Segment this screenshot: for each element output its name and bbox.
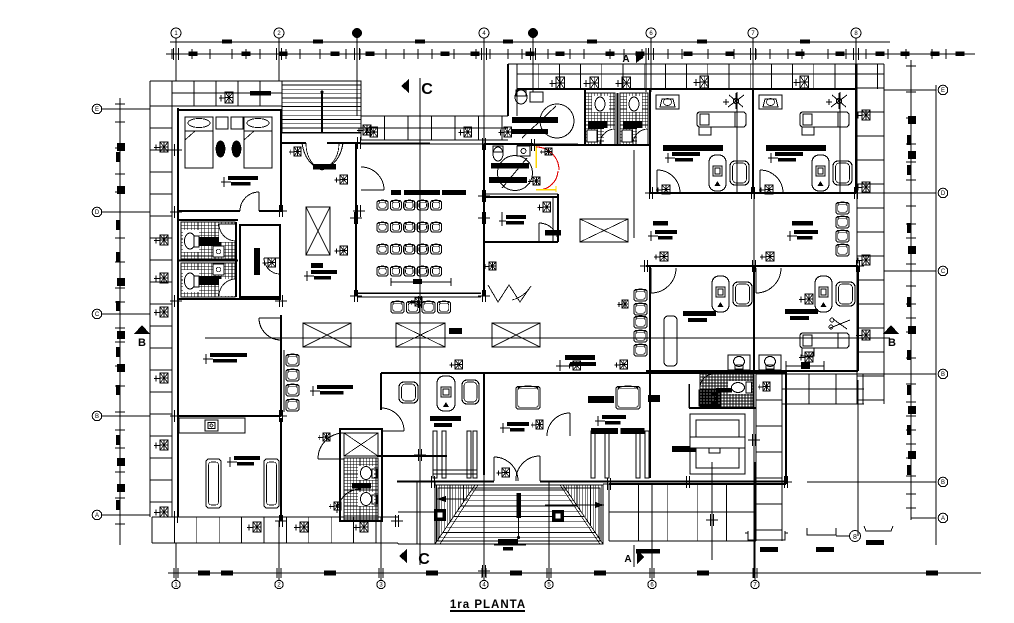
svg-text:B: B xyxy=(95,414,99,420)
svg-text:A: A xyxy=(624,554,631,565)
svg-text:B: B xyxy=(138,337,146,349)
svg-text:1ra PLANTA: 1ra PLANTA xyxy=(450,599,526,611)
svg-text:A: A xyxy=(622,54,629,65)
svg-text:C: C xyxy=(421,81,433,98)
svg-text:B: B xyxy=(941,480,945,486)
svg-text:E: E xyxy=(95,107,99,113)
svg-text:B: B xyxy=(888,337,896,349)
svg-text:D: D xyxy=(941,191,946,197)
svg-text:E: E xyxy=(941,88,945,94)
svg-text:A: A xyxy=(95,513,99,519)
svg-text:B: B xyxy=(941,372,945,378)
svg-text:A: A xyxy=(941,516,945,522)
svg-text:D: D xyxy=(95,210,100,216)
svg-text:8: 8 xyxy=(853,534,857,541)
svg-text:C: C xyxy=(418,551,430,568)
svg-text:C: C xyxy=(95,312,100,318)
svg-text:C: C xyxy=(941,269,946,275)
